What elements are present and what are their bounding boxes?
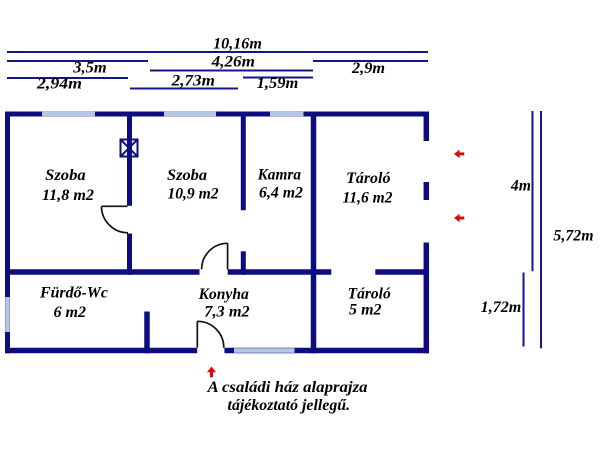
svg-text:7,3 m2: 7,3 m2: [204, 304, 250, 321]
svg-text:Fürdő-Wc: Fürdő-Wc: [39, 284, 108, 301]
svg-text:3,5m: 3,5m: [72, 59, 106, 76]
svg-text:2,94m: 2,94m: [36, 76, 82, 93]
svg-text:6,4 m2: 6,4 m2: [259, 185, 303, 202]
svg-text:1,72m: 1,72m: [481, 299, 522, 316]
svg-text:10,9 m2: 10,9 m2: [167, 186, 218, 203]
svg-text:5,72m: 5,72m: [553, 228, 593, 245]
svg-text:2,73m: 2,73m: [171, 73, 215, 90]
svg-text:2,9m: 2,9m: [351, 60, 385, 77]
svg-text:tájékoztató jellegű.: tájékoztató jellegű.: [228, 397, 351, 414]
svg-text:Kamra: Kamra: [257, 167, 302, 184]
svg-text:10,16m: 10,16m: [213, 36, 262, 53]
svg-text:Tároló: Tároló: [348, 286, 391, 303]
svg-text:Tároló: Tároló: [346, 170, 391, 187]
svg-text:4,26m: 4,26m: [211, 54, 255, 71]
svg-text:4m: 4m: [510, 177, 531, 194]
svg-text:Konyha: Konyha: [198, 286, 249, 303]
svg-text:11,6 m2: 11,6 m2: [343, 190, 393, 207]
svg-text:A családi ház alaprajza: A családi ház alaprajza: [206, 379, 367, 396]
svg-text:Szoba: Szoba: [45, 167, 86, 184]
svg-text:11,8 m2: 11,8 m2: [42, 187, 94, 204]
svg-text:6 m2: 6 m2: [54, 304, 87, 321]
svg-text:1,59m: 1,59m: [257, 75, 299, 92]
svg-text:Szoba: Szoba: [167, 167, 207, 184]
svg-text:5 m2: 5 m2: [349, 302, 382, 319]
